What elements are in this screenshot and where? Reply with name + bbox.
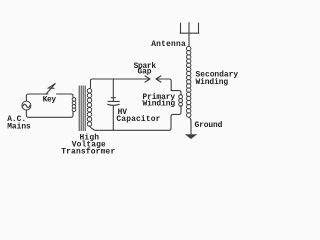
wire: spark gap to primary winding top	[156, 79, 181, 95]
svg-text:Capacitor: Capacitor	[116, 115, 160, 124]
label HV Capacitor	[116, 108, 160, 124]
wire: transformer HV top to spark gap (top rail)	[91, 79, 151, 88]
svg-text:Antenna: Antenna	[151, 40, 186, 49]
antenna symbol	[180, 23, 199, 47]
svg-text:Winding: Winding	[196, 78, 229, 87]
secondary winding L2 (tall coil)	[187, 46, 191, 117]
AC source G1	[22, 101, 31, 110]
spark gap left electrode arrow	[145, 76, 150, 82]
key switch	[46, 84, 55, 95]
wire: secondary bottom to ground	[189, 117, 191, 134]
transformer T1 primary winding (left coil)	[72, 98, 76, 112]
wire: transformer HV bottom to primary winding bottom (bottom rail)	[90, 106, 182, 131]
label Primary Winding	[143, 93, 176, 108]
spark gap right electrode arrow	[156, 76, 161, 82]
primary winding L1 (tank coil)	[179, 95, 183, 107]
svg-text:Gap: Gap	[138, 68, 152, 77]
transformer T1 core	[79, 86, 85, 132]
capacitor C1 plates	[108, 101, 120, 105]
label Secondary Winding	[196, 71, 239, 87]
svg-text:Winding: Winding	[143, 100, 176, 109]
transformer T1 secondary winding (right coil)	[87, 89, 91, 127]
svg-text:Mains: Mains	[7, 122, 31, 131]
capacitor C1 top lead with tick	[111, 79, 115, 101]
wire: AC source top lead to key	[26, 94, 48, 101]
wire: key to transformer primary top	[57, 94, 74, 98]
label Spark Gap	[134, 62, 157, 77]
wire: AC source bottom lead to transformer primary bottom	[26, 110, 73, 117]
ground symbol (arrow)	[185, 134, 197, 139]
svg-text:Ground: Ground	[195, 121, 223, 130]
label A.C. Mains	[7, 115, 31, 131]
capacitor C1 bottom lead	[112, 105, 114, 130]
svg-text:Transformer: Transformer	[61, 148, 115, 157]
label High Voltage Transformer	[61, 133, 115, 156]
svg-text:Key: Key	[43, 96, 57, 105]
